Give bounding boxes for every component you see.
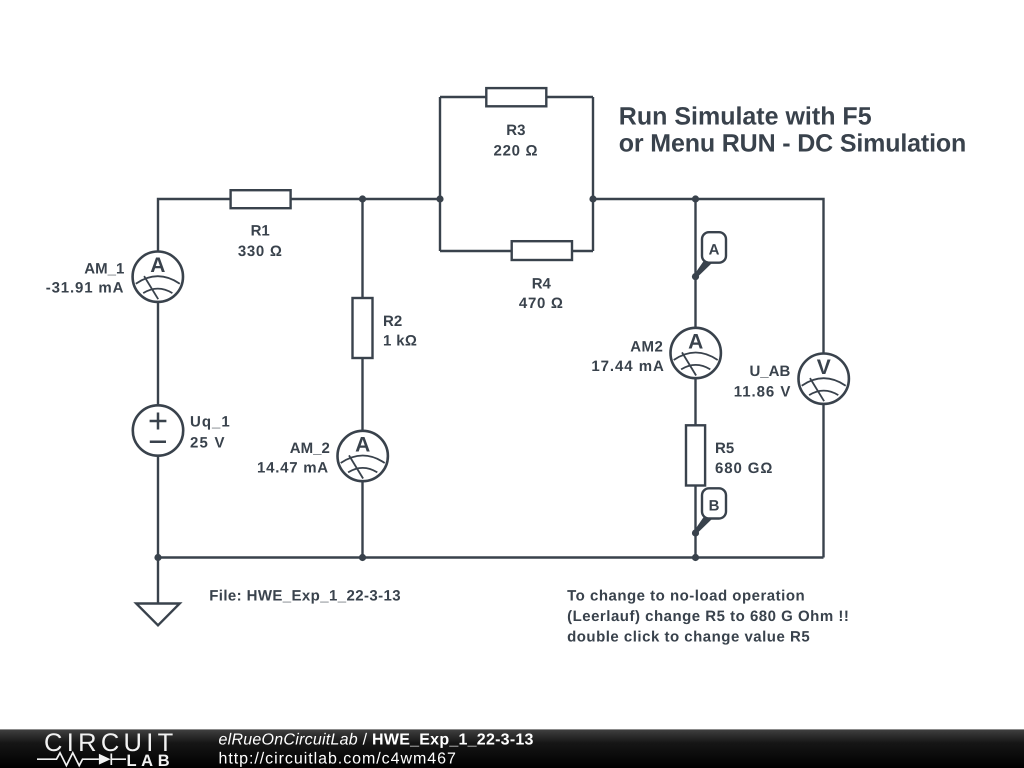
svg-text:To change to no-load operation: To change to no-load operation [567,588,805,605]
resistor R1 [231,190,291,260]
svg-text:1 kΩ: 1 kΩ [383,332,417,349]
resistor R4 [512,241,572,312]
svg-text:25 V: 25 V [190,435,226,452]
svg-text:R3: R3 [506,122,525,139]
svg-text:A: A [688,331,703,354]
ammeter AM2 [671,328,721,378]
junction node dot loop left [436,195,443,202]
svg-text:(Leerlauf) change R5 to 680 G: (Leerlauf) change R5 to 680 G Ohm !! [567,608,849,625]
svg-text:B: B [709,497,720,514]
wire top right and right rail [593,199,824,558]
label AM2 [591,338,664,375]
junction node dot R2 top [359,195,366,202]
svg-text:elRueOnCircuitLab / HWE_Exp_1_: elRueOnCircuitLab / HWE_Exp_1_22-3-13 [219,732,534,749]
svg-text:R5: R5 [715,440,734,457]
ammeter AM_1 [133,252,183,302]
label AM_2 [257,440,330,476]
ammeter AM_2 [338,431,388,481]
wire left rail and top wire [158,199,440,603]
resistor R3 [486,88,546,159]
label U_AB [734,363,792,401]
svg-text:AM_2: AM_2 [290,440,330,457]
ground [136,604,180,626]
wire R2 branch [361,199,363,558]
svg-text:Uq_1: Uq_1 [190,414,231,431]
note change R5 [567,588,849,646]
svg-text:http://circuitlab.com/c4wm467: http://circuitlab.com/c4wm467 [219,750,457,767]
note run simulate [619,102,966,157]
svg-text:11.86 V: 11.86 V [734,383,792,400]
svg-text:470 Ω: 470 Ω [519,295,564,312]
svg-text:R1: R1 [251,222,270,239]
resistor R2 [353,298,418,358]
wire R3 loop top [440,96,593,98]
svg-text:220 Ω: 220 Ω [494,142,539,159]
wire AM2/R5 branch [694,199,696,558]
svg-text:Run Simulate with F5: Run Simulate with F5 [619,102,872,130]
resistor R5 [686,425,773,485]
svg-text:or Menu RUN - DC Simulation: or Menu RUN - DC Simulation [619,130,966,158]
wire loop left vertical [439,97,441,251]
svg-text:680 GΩ: 680 GΩ [715,460,773,477]
node A balloon [692,232,726,280]
wire R3 loop bottom (R4 branch) [440,250,593,252]
svg-text:AM_1: AM_1 [84,261,124,278]
svg-text:-31.91 mA: -31.91 mA [46,279,125,296]
footer logo resistor diode art [37,753,126,766]
wire bottom [158,556,824,558]
node B balloon [692,488,726,536]
label AM_1 [46,261,125,297]
junction node dot loop right [589,195,596,202]
svg-text:AM2: AM2 [630,338,663,355]
svg-text:File: HWE_Exp_1_22-3-13: File: HWE_Exp_1_22-3-13 [209,588,401,605]
svg-text:14.47 mA: 14.47 mA [257,460,329,477]
svg-text:LAB: LAB [127,752,175,768]
footer bar [0,729,1024,768]
wire loop right vertical [592,97,594,251]
svg-text:double click to change value R: double click to change value R5 [567,629,810,646]
svg-text:R4: R4 [532,275,552,292]
svg-text:17.44 mA: 17.44 mA [591,358,664,375]
svg-text:U_AB: U_AB [749,363,790,380]
svg-text:330 Ω: 330 Ω [238,243,283,260]
svg-text:V: V [817,356,831,379]
svg-text:A: A [355,434,370,457]
label Uq_1 [190,414,231,452]
svg-text:A: A [709,241,720,258]
voltmeter U_AB [799,354,849,404]
svg-text:A: A [150,254,165,277]
junction node dot AM_2 bottom [359,554,366,561]
voltage source Uq_1 [133,405,183,455]
svg-text:R2: R2 [383,313,402,330]
junction node dot R5 bottom [692,554,699,561]
junction node dot ground [154,554,161,561]
junction node dot AM2 top [692,195,699,202]
